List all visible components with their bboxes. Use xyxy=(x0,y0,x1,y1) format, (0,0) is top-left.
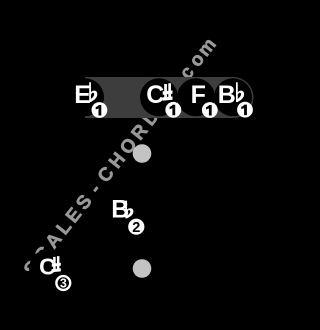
label Bb2 xyxy=(111,196,133,224)
label C#3 xyxy=(39,253,61,279)
inlay dot fret2 xyxy=(133,144,152,163)
note disc F string5 xyxy=(177,78,215,116)
note disc C# string4 xyxy=(140,78,178,116)
barre (fret 1 bar) xyxy=(85,77,254,118)
note disc Bb string6 xyxy=(214,78,252,116)
note disc Eb string2 xyxy=(66,78,104,116)
finger 2 badge (Bb) xyxy=(128,219,144,237)
label Eb xyxy=(74,81,97,109)
inlay dot fret4 xyxy=(133,259,152,278)
note disc C# string1 fret4 xyxy=(29,250,67,288)
finger 3 badge ring (C#) xyxy=(56,276,70,290)
svg-text:2: 2 xyxy=(132,220,140,236)
finger 1 badge (Eb) xyxy=(92,102,108,118)
label Bb1 xyxy=(218,81,244,109)
svg-text:3: 3 xyxy=(60,276,67,290)
svg-text:C: C xyxy=(146,81,164,109)
svg-text:E: E xyxy=(74,81,91,109)
watermark SCALES-CHORDS.com xyxy=(20,34,221,280)
svg-text:B: B xyxy=(218,81,236,109)
svg-text:F: F xyxy=(191,81,206,109)
label C#1 xyxy=(146,81,172,109)
finger 1 badge (C#) xyxy=(165,102,181,118)
finger 1 badge (Bb) xyxy=(237,102,253,118)
note disc Bb string3 fret3 xyxy=(103,192,141,230)
finger 1 badge (F) xyxy=(202,102,218,118)
